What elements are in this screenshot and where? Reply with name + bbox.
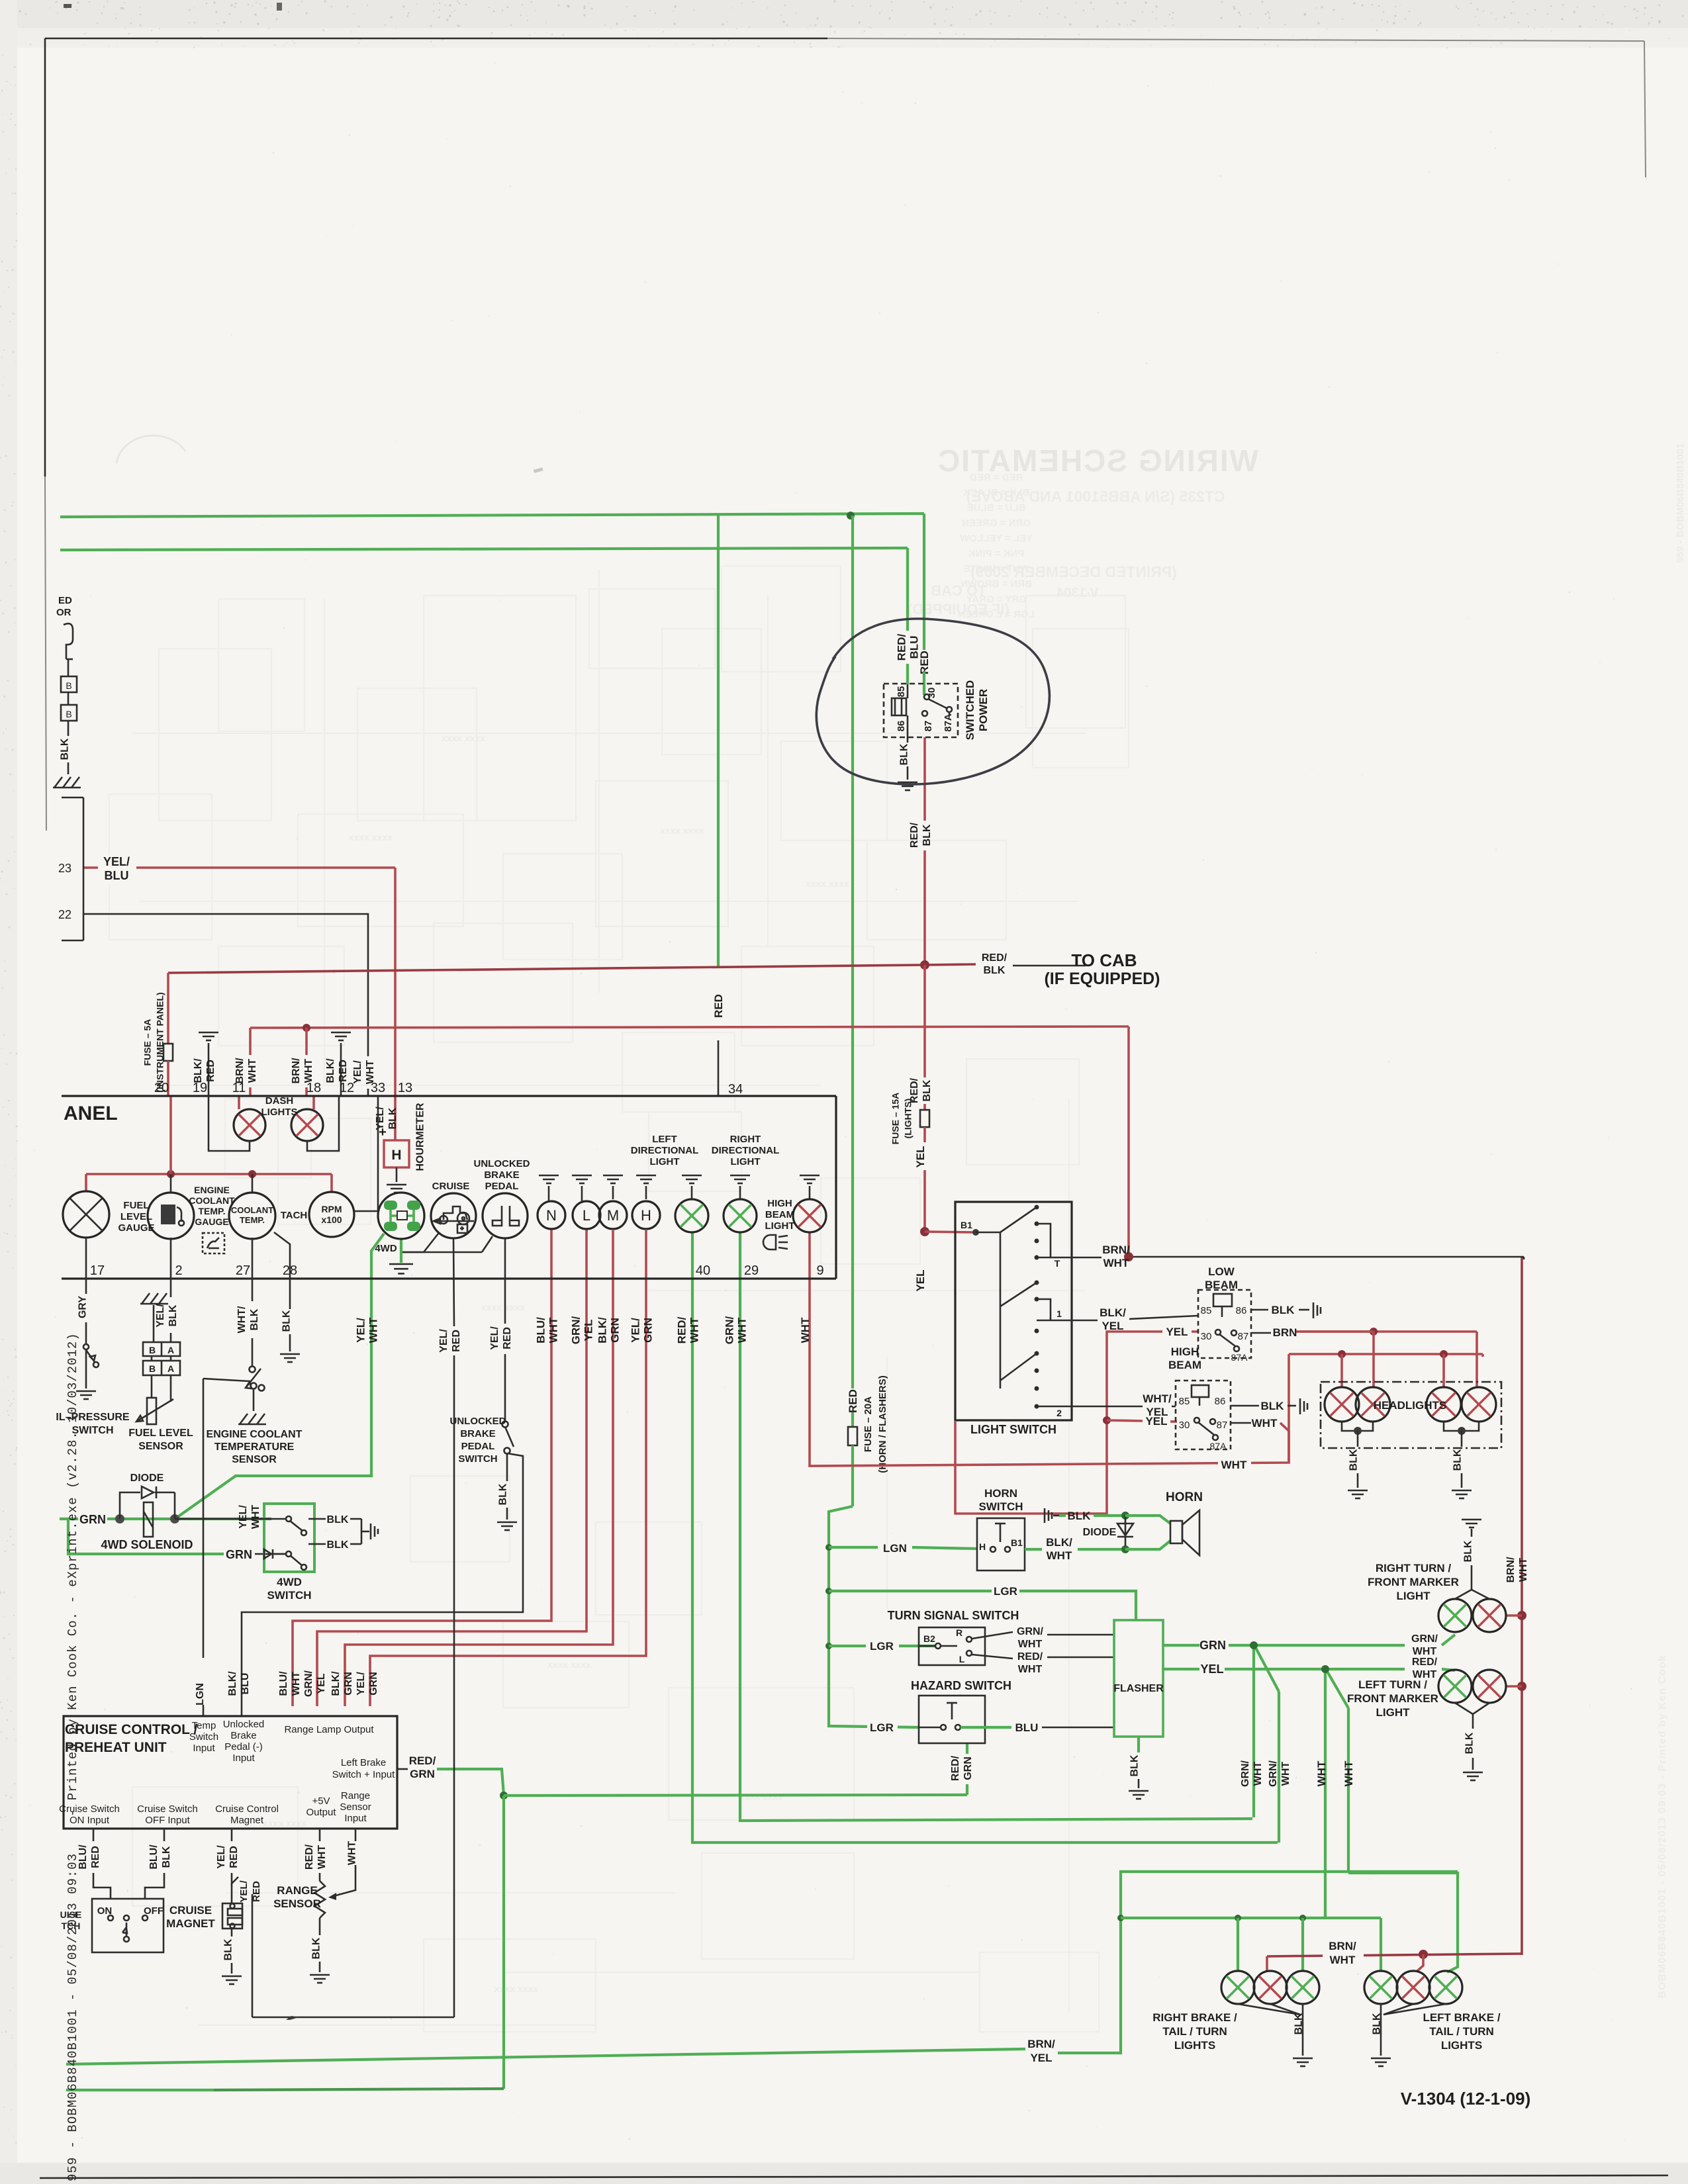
svg-text:BLU: BLU	[105, 869, 129, 882]
svg-text:RIGHT: RIGHT	[730, 1134, 761, 1145]
svg-text:BLK: BLK	[1068, 1510, 1092, 1522]
svg-text:- Printed by Ken Cook Co. - eX: - Printed by Ken Cook Co. - eXprint.exe …	[66, 1332, 80, 1817]
svg-text:LEFT TURN /: LEFT TURN /	[1358, 1678, 1427, 1691]
svg-text:85: 85	[896, 686, 907, 698]
svg-text:87: 87	[1217, 1420, 1228, 1431]
svg-text:RED: RED	[228, 1846, 240, 1868]
svg-text:WHT: WHT	[316, 1845, 328, 1870]
svg-text:TO CAB: TO CAB	[931, 582, 986, 599]
svg-text:BLK/: BLK/	[1046, 1536, 1072, 1549]
svg-text:YEL/: YEL/	[489, 1326, 500, 1350]
svg-text:LGR: LGR	[870, 1640, 894, 1653]
svg-text:A: A	[167, 1345, 174, 1355]
svg-text:87A: 87A	[1210, 1441, 1227, 1451]
svg-text:FRONT MARKER: FRONT MARKER	[1347, 1692, 1438, 1705]
svg-text:Input: Input	[344, 1813, 367, 1824]
svg-text:RED: RED	[918, 651, 931, 674]
svg-text:LIGHT: LIGHT	[765, 1220, 795, 1232]
svg-text:PEDAL: PEDAL	[461, 1441, 495, 1452]
svg-text:xxxx xxxx: xxxx xxxx	[806, 878, 849, 889]
svg-text:FLASHER: FLASHER	[1113, 1683, 1164, 1694]
svg-text:DIRECTIONAL: DIRECTIONAL	[712, 1145, 780, 1156]
svg-text:BLK: BLK	[281, 1310, 293, 1332]
svg-text:GAUGE: GAUGE	[118, 1222, 154, 1234]
svg-text:WHT: WHT	[1018, 1664, 1043, 1675]
svg-text:B2: B2	[923, 1633, 935, 1644]
svg-text:BLK/: BLK/	[330, 1671, 342, 1696]
svg-text:GRN/: GRN/	[1240, 1760, 1251, 1787]
svg-text:Magnet: Magnet	[230, 1815, 264, 1826]
svg-text:FUSE – 15A: FUSE – 15A	[890, 1093, 900, 1145]
svg-text:BLK: BLK	[1372, 2013, 1383, 2034]
svg-text:LIGHTS: LIGHTS	[261, 1107, 298, 1118]
svg-text:BLK: BLK	[498, 1483, 509, 1505]
svg-text:ENGINE COOLANT: ENGINE COOLANT	[207, 1429, 303, 1440]
svg-text:YEL: YEL	[914, 1269, 927, 1291]
svg-text:POWER: POWER	[977, 689, 990, 731]
svg-text:BLK: BLK	[327, 1514, 349, 1525]
svg-text:xxxx xxxx: xxxx xxxx	[263, 1818, 306, 1829]
svg-text:CRUISE CONTROL /: CRUISE CONTROL /	[65, 1722, 197, 1737]
svg-text:WHT: WHT	[1413, 1646, 1437, 1657]
svg-text:BLU: BLU	[240, 1673, 251, 1695]
svg-text:FUEL: FUEL	[123, 1200, 149, 1211]
svg-text:HORN: HORN	[1166, 1490, 1203, 1504]
svg-text:WHT: WHT	[367, 1317, 379, 1343]
svg-text:RED/: RED/	[304, 1844, 315, 1870]
svg-text:SWITCH: SWITCH	[978, 1500, 1023, 1513]
svg-text:YEL/: YEL/	[629, 1318, 641, 1343]
svg-text:BRN/: BRN/	[234, 1058, 246, 1084]
svg-text:N: N	[546, 1207, 557, 1224]
svg-text:1: 1	[1056, 1308, 1062, 1319]
svg-text:WHT: WHT	[1047, 1549, 1072, 1562]
svg-text:WHT: WHT	[1252, 1417, 1278, 1430]
svg-text:xxxx xxxx: xxxx xxxx	[660, 825, 704, 836]
svg-text:Left Brake: Left Brake	[341, 1757, 386, 1768]
svg-text:RED/: RED/	[1412, 1657, 1438, 1668]
svg-text:ED: ED	[58, 595, 72, 606]
svg-text:SWITCH: SWITCH	[267, 1589, 311, 1602]
svg-text:YEL/: YEL/	[238, 1880, 250, 1902]
svg-text:+5V: +5V	[312, 1796, 330, 1807]
svg-text:(IF EQUIPPED): (IF EQUIPPED)	[1044, 970, 1160, 988]
svg-text:LEVEL: LEVEL	[120, 1211, 152, 1222]
svg-text:TAIL / TURN: TAIL / TURN	[1162, 2025, 1227, 2038]
svg-text:DIRECTIONAL: DIRECTIONAL	[631, 1145, 699, 1156]
svg-text:BRN/: BRN/	[1102, 1244, 1130, 1256]
svg-text:LIGHT: LIGHT	[1397, 1590, 1431, 1602]
svg-text:BLK: BLK	[1348, 1449, 1360, 1471]
svg-text:GAUGE: GAUGE	[195, 1216, 228, 1227]
svg-text:Switch + Input: Switch + Input	[332, 1769, 395, 1780]
svg-text:GRN: GRN	[79, 1513, 106, 1526]
svg-text:HEADLIGHTS: HEADLIGHTS	[1374, 1399, 1447, 1412]
svg-text:GRN: GRN	[410, 1768, 435, 1780]
svg-text:TURN SIGNAL SWITCH: TURN SIGNAL SWITCH	[888, 1609, 1019, 1622]
svg-text:BRN/: BRN/	[1505, 1557, 1517, 1583]
svg-text:FUSE – 20A: FUSE – 20A	[863, 1396, 874, 1452]
svg-text:11: 11	[232, 1081, 246, 1095]
svg-text:A: A	[167, 1363, 174, 1374]
svg-text:BLK: BLK	[984, 965, 1006, 976]
svg-text:27: 27	[236, 1263, 250, 1278]
svg-text:LIGHT SWITCH: LIGHT SWITCH	[970, 1423, 1056, 1436]
svg-text:MAGNET: MAGNET	[166, 1917, 215, 1930]
svg-text:Output: Output	[306, 1807, 336, 1818]
svg-text:YEL/: YEL/	[438, 1329, 449, 1353]
svg-text:TO CAB: TO CAB	[1071, 950, 1137, 970]
svg-text:BLU/: BLU/	[534, 1317, 547, 1343]
svg-text:WHT: WHT	[735, 1317, 748, 1343]
svg-text:WHT: WHT	[1103, 1257, 1129, 1269]
svg-text:BLK: BLK	[167, 1304, 179, 1326]
svg-text:WHT: WHT	[799, 1317, 812, 1343]
svg-text:L: L	[959, 1654, 965, 1664]
svg-text:BRN/: BRN/	[1329, 1940, 1356, 1952]
svg-text:SENSOR: SENSOR	[273, 1897, 321, 1910]
svg-text:WHT: WHT	[347, 1841, 358, 1866]
svg-text:OR: OR	[56, 607, 71, 618]
svg-text:YEL/: YEL/	[355, 1672, 367, 1696]
svg-text:YEL: YEL	[1146, 1406, 1168, 1418]
svg-text:TAIL / TURN: TAIL / TURN	[1429, 2025, 1494, 2038]
svg-text:BLK: BLK	[1293, 2013, 1305, 2034]
svg-text:BLK/: BLK/	[193, 1058, 204, 1083]
svg-text:RED/: RED/	[909, 822, 920, 848]
svg-text:V-1304 (12-1-09): V-1304 (12-1-09)	[1401, 2089, 1531, 2109]
svg-text:xxxx xxxx: xxxx xxxx	[739, 1792, 783, 1802]
svg-text:YEL: YEL	[1030, 2052, 1052, 2064]
svg-text:FUSE – 5A: FUSE – 5A	[142, 1019, 152, 1066]
svg-text:85: 85	[1201, 1305, 1212, 1316]
svg-text:H: H	[391, 1148, 401, 1163]
svg-text:33: 33	[371, 1081, 385, 1095]
svg-text:WHT: WHT	[247, 1059, 258, 1083]
svg-text:B1: B1	[961, 1220, 972, 1230]
svg-text:RED = RED: RED = RED	[970, 472, 1023, 483]
svg-text:RANGE: RANGE	[277, 1884, 317, 1897]
svg-text:RED: RED	[502, 1327, 513, 1349]
svg-text:YEL: YEL	[1102, 1320, 1123, 1332]
svg-text:BLK: BLK	[249, 1308, 260, 1330]
svg-text:B: B	[66, 709, 71, 719]
svg-text:LEFT: LEFT	[652, 1134, 677, 1145]
svg-text:YEL: YEL	[1200, 1662, 1223, 1676]
svg-text:BLK: BLK	[1463, 1540, 1474, 1562]
svg-text:WHT: WHT	[303, 1059, 314, 1083]
svg-text:40: 40	[696, 1263, 710, 1278]
svg-text:GRN/: GRN/	[1411, 1633, 1438, 1645]
svg-text:RED: RED	[205, 1060, 216, 1082]
svg-text:RED: RED	[251, 1881, 262, 1902]
svg-text:COOLANT: COOLANT	[189, 1195, 235, 1206]
svg-text:19: 19	[193, 1081, 207, 1095]
svg-text:xxxx xxxx: xxxx xxxx	[481, 1302, 525, 1312]
svg-text:GRN/: GRN/	[1017, 1626, 1044, 1637]
svg-text:RED/: RED/	[409, 1754, 436, 1767]
svg-text:YEL: YEL	[582, 1319, 594, 1341]
svg-text:LIGHT: LIGHT	[1376, 1706, 1411, 1719]
svg-text:TACH: TACH	[281, 1210, 308, 1221]
svg-text:B: B	[66, 680, 71, 691]
svg-text:WHT: WHT	[291, 1672, 302, 1696]
svg-text:RED: RED	[90, 1846, 101, 1868]
svg-text:LGN: LGN	[883, 1542, 907, 1555]
svg-text:GRN: GRN	[1199, 1639, 1226, 1652]
svg-text:OFF Input: OFF Input	[145, 1815, 190, 1826]
svg-text:GRN/: GRN/	[1268, 1760, 1279, 1787]
svg-text:BRN/: BRN/	[291, 1058, 302, 1084]
svg-text:SENSOR: SENSOR	[138, 1441, 183, 1452]
svg-text:HOURMETER: HOURMETER	[415, 1103, 426, 1171]
svg-text:2: 2	[175, 1263, 182, 1278]
svg-text:H: H	[641, 1207, 651, 1224]
svg-text:WHT = WHITE: WHT = WHITE	[963, 563, 1029, 574]
svg-text:BLK: BLK	[1129, 1754, 1141, 1776]
svg-text:Temp: Temp	[192, 1720, 216, 1731]
svg-text:LGN: LGN	[195, 1683, 206, 1706]
svg-text:CRUISE: CRUISE	[432, 1181, 470, 1192]
svg-text:RED: RED	[338, 1060, 349, 1082]
svg-text:85: 85	[1179, 1396, 1190, 1407]
svg-text:L: L	[583, 1207, 590, 1224]
svg-text:HAZARD SWITCH: HAZARD SWITCH	[911, 1679, 1011, 1692]
svg-text:UNLOCKED: UNLOCKED	[450, 1416, 506, 1427]
svg-text:87: 87	[923, 721, 934, 732]
svg-text:LOW: LOW	[1208, 1265, 1235, 1278]
svg-text:GRN/: GRN/	[569, 1316, 582, 1344]
svg-text:(LIGHTS): (LIGHTS)	[902, 1099, 913, 1139]
svg-text:22: 22	[58, 908, 71, 921]
svg-text:WHT: WHT	[1280, 1762, 1291, 1786]
svg-text:86: 86	[1215, 1396, 1226, 1407]
svg-text:PNK = PINK: PNK = PINK	[968, 548, 1025, 559]
svg-text:BOBM06B840B1001 - 05/08/2013: BOBM06B840B1001 - 05/08/2013 09:03 - Pri…	[1657, 1655, 1668, 1998]
svg-text:BEAM: BEAM	[765, 1209, 794, 1220]
svg-text:YEL: YEL	[914, 1146, 927, 1167]
svg-text:DIODE: DIODE	[130, 1473, 164, 1484]
svg-text:BEAM: BEAM	[1168, 1359, 1201, 1371]
svg-text:YEL/: YEL/	[354, 1318, 367, 1343]
svg-text:4WD: 4WD	[375, 1243, 397, 1254]
svg-text:Range Lamp Output: Range Lamp Output	[284, 1724, 374, 1735]
svg-text:HIGH: HIGH	[767, 1198, 792, 1209]
svg-text:RIGHT BRAKE /: RIGHT BRAKE /	[1152, 2011, 1237, 2024]
svg-text:R: R	[956, 1627, 962, 1638]
svg-text:WHT/: WHT/	[1143, 1392, 1172, 1405]
svg-text:29: 29	[744, 1263, 759, 1278]
svg-text:YEL/: YEL/	[238, 1505, 249, 1529]
svg-text:YEL/: YEL/	[216, 1845, 227, 1869]
svg-text:GRN/: GRN/	[723, 1316, 735, 1344]
svg-text:BLU/: BLU/	[148, 1844, 160, 1870]
svg-text:959 - BOBM06B840B1001 - 05/08/: 959 - BOBM06B840B1001 - 05/08/2013 09:03	[66, 1853, 80, 2181]
svg-text:WHT: WHT	[547, 1317, 559, 1343]
svg-text:2: 2	[1056, 1408, 1062, 1418]
svg-text:WHT/: WHT/	[236, 1306, 248, 1333]
svg-text:BLK: BLK	[387, 1107, 399, 1129]
svg-text:LGR: LGR	[870, 1721, 894, 1734]
svg-text:Input: Input	[232, 1752, 255, 1764]
svg-text:30: 30	[1179, 1420, 1190, 1431]
svg-text:FRONT MARKER: FRONT MARKER	[1368, 1576, 1459, 1588]
svg-text:B1: B1	[1011, 1537, 1023, 1548]
svg-text:BLK/: BLK/	[325, 1058, 336, 1083]
svg-text:30: 30	[1201, 1331, 1212, 1342]
svg-text:LIGHT: LIGHT	[650, 1156, 680, 1167]
svg-text:FUEL LEVEL: FUEL LEVEL	[128, 1428, 193, 1439]
svg-text:Range: Range	[341, 1790, 370, 1801]
svg-text:BLK/: BLK/	[596, 1317, 608, 1343]
svg-text:WHT: WHT	[1518, 1558, 1529, 1582]
svg-text:TEMP.: TEMP.	[240, 1215, 265, 1225]
svg-text:87A: 87A	[1231, 1352, 1248, 1363]
svg-text:BLK: BLK	[921, 824, 933, 846]
svg-text:SWITCHED: SWITCHED	[964, 680, 976, 741]
svg-text:xxxx xxxx: xxxx xxxx	[442, 733, 485, 743]
svg-text:23: 23	[58, 862, 71, 875]
svg-text:Switch: Switch	[189, 1731, 218, 1743]
svg-text:DASH: DASH	[265, 1095, 294, 1107]
svg-text:BLK/: BLK/	[1100, 1306, 1126, 1319]
svg-text:RED/: RED/	[675, 1316, 688, 1343]
svg-text:YEL: YEL	[1166, 1326, 1188, 1338]
svg-text:RED/: RED/	[1017, 1651, 1043, 1662]
svg-text:RPM: RPM	[321, 1204, 342, 1214]
svg-text:BLK: BLK	[223, 1938, 234, 1960]
svg-text:GRN: GRN	[226, 1548, 252, 1561]
svg-text:(HORN / FLASHERS): (HORN / FLASHERS)	[877, 1375, 888, 1473]
svg-text:WHT: WHT	[1221, 1459, 1247, 1471]
svg-text:WHT: WHT	[1342, 1760, 1355, 1786]
svg-text:PEDAL: PEDAL	[485, 1181, 519, 1192]
svg-text:18: 18	[306, 1081, 321, 1095]
svg-text:Input: Input	[193, 1743, 215, 1754]
svg-text:BLU/: BLU/	[278, 1671, 289, 1696]
svg-text:LIGHTS: LIGHTS	[1174, 2039, 1215, 2052]
svg-text:PREHEAT UNIT: PREHEAT UNIT	[65, 1740, 167, 1755]
svg-text:BRN/: BRN/	[1027, 2038, 1055, 2050]
svg-text:x100: x100	[321, 1214, 342, 1225]
svg-text:RED/: RED/	[982, 952, 1008, 964]
svg-text:YEL/: YEL/	[155, 1304, 166, 1328]
svg-text:xxxx xxxx: xxxx xxxx	[349, 832, 393, 842]
svg-text:LGR: LGR	[994, 1585, 1017, 1598]
svg-text:BLK: BLK	[60, 738, 71, 760]
svg-text:RIGHT TURN /: RIGHT TURN /	[1376, 1562, 1452, 1574]
svg-text:TEMP.: TEMP.	[199, 1206, 226, 1216]
svg-text:M: M	[607, 1207, 619, 1224]
svg-text:SENSOR: SENSOR	[232, 1454, 277, 1465]
svg-text:xxxx xxxx: xxxx xxxx	[547, 1659, 591, 1670]
svg-text:Unlocked: Unlocked	[223, 1719, 265, 1730]
svg-text:4WD: 4WD	[277, 1576, 302, 1588]
svg-text:(INSTRUMENT PANEL): (INSTRUMENT PANEL)	[154, 992, 165, 1092]
svg-text:UNLOCKED: UNLOCKED	[474, 1158, 530, 1169]
svg-text:BLU = BLUE: BLU = BLUE	[967, 502, 1026, 514]
svg-text:BLK: BLK	[1464, 1732, 1476, 1754]
svg-text:BLU: BLU	[1015, 1721, 1039, 1734]
svg-text:34: 34	[728, 1082, 743, 1097]
svg-text:30: 30	[926, 688, 937, 699]
svg-text:87A: 87A	[943, 713, 954, 732]
svg-text:GRN: GRN	[368, 1672, 379, 1696]
svg-text:WHT: WHT	[1252, 1762, 1264, 1786]
svg-text:xxxx xxxx: xxxx xxxx	[494, 1983, 538, 1994]
svg-text:WHT: WHT	[1018, 1639, 1043, 1650]
svg-text:87: 87	[1238, 1331, 1249, 1342]
svg-text:RED: RED	[451, 1330, 462, 1352]
svg-text:WHT: WHT	[1315, 1760, 1328, 1786]
svg-text:WHT: WHT	[250, 1505, 261, 1529]
svg-text:V-1304: V-1304	[1056, 586, 1098, 600]
svg-text:RED: RED	[712, 994, 725, 1018]
svg-text:SWITCH: SWITCH	[458, 1453, 497, 1465]
svg-text:HIGH: HIGH	[1171, 1345, 1199, 1358]
svg-text:BLK: BLK	[327, 1539, 349, 1551]
svg-text:BRAKE: BRAKE	[484, 1169, 519, 1181]
svg-text:H: H	[979, 1541, 986, 1552]
svg-text:BLK: BLK	[921, 1079, 933, 1101]
svg-text:YEL = YELLOW: YEL = YELLOW	[959, 533, 1033, 544]
svg-text:4WD SOLENOID: 4WD SOLENOID	[101, 1538, 193, 1551]
svg-text:GRN/: GRN/	[303, 1670, 314, 1697]
svg-text:BLK/: BLK/	[227, 1671, 238, 1696]
svg-text:86: 86	[896, 721, 907, 732]
svg-text:YEL: YEL	[316, 1673, 327, 1694]
svg-text:ANEL: ANEL	[64, 1103, 118, 1124]
svg-text:LIGHTS: LIGHTS	[1441, 2039, 1482, 2052]
svg-text:B: B	[149, 1363, 156, 1374]
svg-text:Brake: Brake	[230, 1730, 256, 1741]
svg-text:GRN: GRN	[962, 1756, 974, 1780]
svg-text:RED/: RED/	[950, 1755, 961, 1781]
svg-text:12: 12	[340, 1081, 354, 1095]
svg-text:CRUISE: CRUISE	[169, 1904, 212, 1917]
svg-text:GRN = GREEN: GRN = GREEN	[962, 518, 1031, 529]
svg-text:Cruise Control: Cruise Control	[215, 1803, 279, 1815]
svg-text:LIGHT: LIGHT	[731, 1156, 761, 1167]
svg-text:BLK: BLK	[161, 1846, 172, 1868]
svg-text:YEL/: YEL/	[103, 855, 130, 868]
svg-text:GRN: GRN	[343, 1672, 354, 1696]
svg-text:BLK = BLACK: BLK = BLACK	[963, 487, 1030, 498]
svg-text:BLK: BLK	[899, 743, 910, 765]
svg-text:GRN: GRN	[608, 1318, 621, 1343]
svg-text:13: 13	[398, 1081, 412, 1095]
svg-text:GRN: GRN	[641, 1318, 654, 1343]
svg-text:TEMPERATURE: TEMPERATURE	[214, 1441, 295, 1453]
svg-text:BLK: BLK	[311, 1937, 322, 1959]
svg-text:Sensor: Sensor	[340, 1801, 371, 1813]
svg-text:17: 17	[90, 1263, 105, 1278]
svg-text:B: B	[149, 1345, 156, 1355]
svg-text:COOLANT: COOLANT	[231, 1205, 273, 1215]
svg-text:BRAKE: BRAKE	[460, 1428, 495, 1439]
svg-text:BLK: BLK	[1261, 1400, 1285, 1412]
svg-text:20: 20	[154, 1081, 169, 1095]
svg-text:959 - BOBM06B840B1001: 959 - BOBM06B840B1001	[1675, 443, 1686, 563]
svg-text:BRN: BRN	[1273, 1326, 1297, 1339]
svg-text:9: 9	[816, 1263, 823, 1278]
svg-text:GRY: GRY	[77, 1296, 89, 1318]
svg-text:+: +	[379, 1125, 387, 1140]
svg-text:T: T	[1055, 1258, 1060, 1269]
svg-text:Pedal (-): Pedal (-)	[224, 1741, 263, 1752]
svg-text:DIODE: DIODE	[1083, 1527, 1117, 1538]
svg-text:LEFT BRAKE /: LEFT BRAKE /	[1423, 2011, 1500, 2024]
